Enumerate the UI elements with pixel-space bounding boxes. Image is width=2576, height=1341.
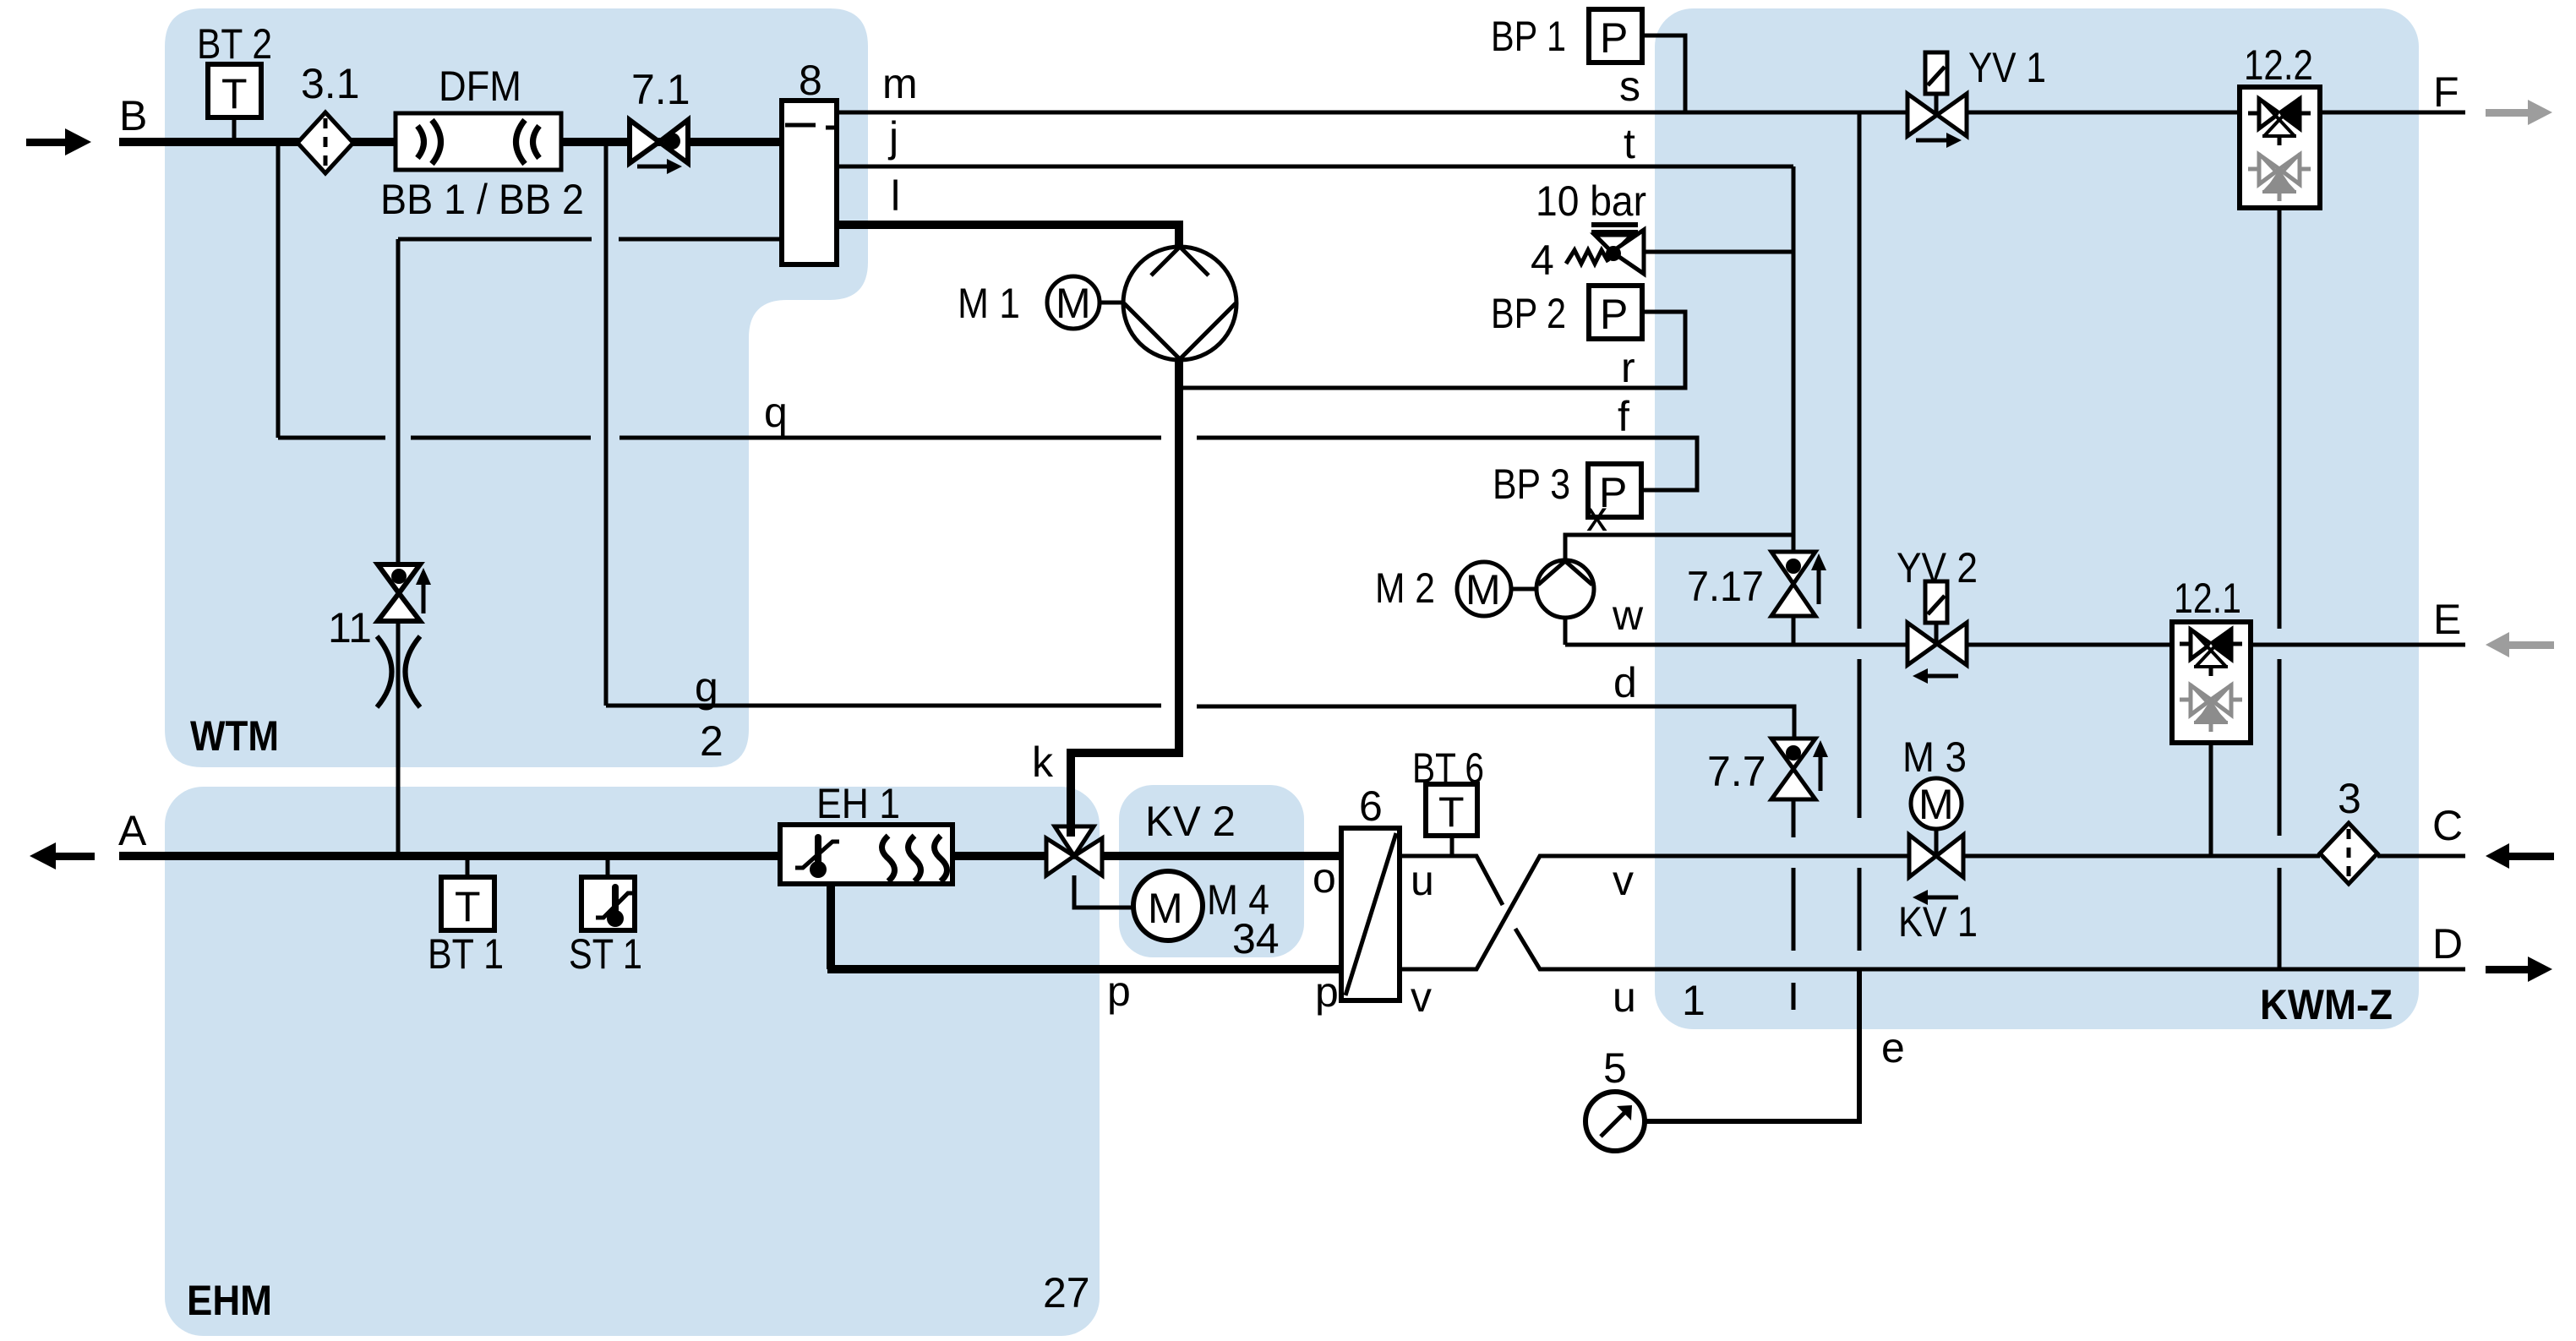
svg-text:M 3: M 3 <box>1902 733 1967 781</box>
svg-text:w: w <box>1612 591 1644 639</box>
svg-text:BT 2: BT 2 <box>197 20 272 68</box>
svg-text:v: v <box>1411 973 1432 1021</box>
svg-text:A: A <box>118 807 147 854</box>
wire 12.2 drain <box>2278 208 2282 969</box>
svg-text:10 bar: 10 bar <box>1536 177 1646 225</box>
svg-text:q: q <box>764 389 788 436</box>
filter 3 <box>2320 823 2377 884</box>
svg-text:3.1: 3.1 <box>301 60 360 107</box>
svg-text:3: 3 <box>2338 775 2361 822</box>
svg-text:YV 2: YV 2 <box>1897 544 1978 591</box>
wire e <box>1645 969 1859 1121</box>
wire 8 lower port <box>398 239 782 578</box>
svg-text:EH 1: EH 1 <box>816 780 900 827</box>
wire v crossing <box>1400 856 1909 969</box>
svg-text:KV 2: KV 2 <box>1145 798 1236 845</box>
gauge 5 <box>1585 1092 1645 1151</box>
svg-text:6: 6 <box>1359 782 1383 830</box>
svg-text:ST 1: ST 1 <box>569 930 642 978</box>
heater EH1 <box>780 825 952 884</box>
svg-text:l: l <box>891 172 900 220</box>
svg-text:P: P <box>1600 14 1628 62</box>
svg-text:5: 5 <box>1603 1044 1627 1092</box>
valve 7.1 <box>630 120 688 174</box>
pump M2 <box>1536 560 1594 618</box>
wire boundary dash x2200 <box>1858 868 1862 951</box>
wire r <box>1179 312 1685 388</box>
svg-text:12.2: 12.2 <box>2244 41 2313 89</box>
wire k thick <box>1071 360 1179 825</box>
svg-text:KV 1: KV 1 <box>1898 898 1978 946</box>
inlet arrow E gray <box>2486 632 2554 657</box>
wire 7.7 below <box>1792 799 1796 837</box>
wire x <box>1565 535 1793 560</box>
svg-text:EHM: EHM <box>187 1277 272 1324</box>
svg-text:2: 2 <box>700 717 723 765</box>
module background KV2 <box>1119 785 1304 957</box>
svg-text:11: 11 <box>328 604 372 651</box>
module background WTM <box>165 8 868 767</box>
svg-text:WTM: WTM <box>190 712 279 760</box>
wire manifold t-down <box>1792 166 1796 645</box>
valve YV2 <box>1907 581 1967 684</box>
svg-text:g: g <box>695 663 718 711</box>
svg-text:M 1: M 1 <box>958 280 1020 327</box>
svg-text:M: M <box>1056 280 1091 327</box>
wire q from B <box>278 145 1697 490</box>
svg-text:m: m <box>882 60 918 107</box>
wire E <box>1967 643 2172 647</box>
svg-text:p: p <box>1107 968 1131 1015</box>
svg-text:T: T <box>455 883 481 930</box>
svg-text:s: s <box>1619 63 1640 110</box>
svg-text:8: 8 <box>799 57 822 104</box>
svg-text:BP 3: BP 3 <box>1493 461 1570 508</box>
filter 3.1 <box>297 112 353 173</box>
flex connector <box>377 636 420 707</box>
svg-text:d: d <box>1613 659 1637 706</box>
svg-text:T: T <box>221 70 248 117</box>
sensor BT6 <box>1426 784 1477 856</box>
svg-text:27: 27 <box>1043 1269 1090 1316</box>
svg-text:7.17: 7.17 <box>1687 563 1764 610</box>
valve KV2 3way <box>1046 823 1102 875</box>
valve 7.7 <box>1771 739 1828 799</box>
svg-text:DFM: DFM <box>439 63 521 110</box>
wire 12.1 drain <box>2209 743 2213 856</box>
svg-text:f: f <box>1618 393 1629 440</box>
svg-text:7.1: 7.1 <box>631 66 690 113</box>
svg-text:p: p <box>1315 968 1339 1016</box>
svg-text:BP 2: BP 2 <box>1491 290 1566 337</box>
svg-text:1: 1 <box>1682 977 1706 1024</box>
wire p thick <box>827 884 1341 969</box>
motor M4 <box>1074 871 1203 940</box>
motor M1 <box>1047 276 1123 329</box>
svg-text:r: r <box>1621 344 1635 391</box>
inlet arrow B <box>26 128 91 155</box>
valve 7.17 <box>1771 552 1826 616</box>
svg-text:BP 1: BP 1 <box>1491 13 1566 60</box>
svg-text:34: 34 <box>1232 915 1280 962</box>
wire w <box>1565 618 1907 645</box>
heat exchanger 6 <box>1341 828 1400 1000</box>
flow meter DFM <box>396 113 561 170</box>
sensor BT1 <box>441 856 494 930</box>
valve KV1 M3 <box>1909 778 1963 905</box>
wire s-down x2200 <box>1858 112 1862 818</box>
svg-text:C: C <box>2432 802 2463 849</box>
sensor ST1 <box>581 856 635 930</box>
wire C from valve <box>1963 854 2320 859</box>
svg-text:j: j <box>887 113 898 161</box>
svg-text:BT 6: BT 6 <box>1412 744 1484 792</box>
svg-text:u: u <box>1411 857 1434 904</box>
separator 8 <box>782 101 837 264</box>
svg-text:E: E <box>2433 596 2461 643</box>
svg-text:k: k <box>1032 739 1054 786</box>
outlet arrow F gray <box>2486 100 2552 125</box>
wire boundary dashes x2122 <box>1792 868 1796 1010</box>
svg-text:12.1: 12.1 <box>2174 575 2241 622</box>
svg-text:M: M <box>1918 781 1954 828</box>
wire l thick <box>837 225 1179 247</box>
svg-text:D: D <box>2432 920 2463 968</box>
svg-text:u: u <box>1613 973 1636 1021</box>
pump M1 <box>1123 247 1236 360</box>
sensor BP2 <box>1589 286 1642 339</box>
svg-text:t: t <box>1624 120 1635 167</box>
sensor BT2 <box>208 64 261 142</box>
svg-text:YV 1: YV 1 <box>1968 44 2046 91</box>
svg-text:e: e <box>1881 1024 1905 1071</box>
svg-text:4: 4 <box>1531 237 1554 284</box>
sensor BP3 <box>1588 464 1641 517</box>
wire B main <box>119 138 784 146</box>
motor M2 <box>1457 562 1536 616</box>
svg-text:M: M <box>1465 566 1501 613</box>
svg-text:M 2: M 2 <box>1375 564 1435 612</box>
wire valve to exchanger <box>1102 852 1341 860</box>
wire A to valve <box>952 852 1048 860</box>
sensor BP1 <box>1589 9 1685 112</box>
wire A main <box>119 852 780 860</box>
svg-text:BB 1 / BB 2: BB 1 / BB 2 <box>380 176 584 223</box>
svg-text:KWM-Z: KWM-Z <box>2260 981 2393 1028</box>
wire g vertical from B <box>606 145 1794 739</box>
outlet arrow D <box>2486 957 2552 982</box>
svg-text:M: M <box>1148 885 1183 932</box>
valve YV1 <box>1907 52 1967 148</box>
svg-text:BT 1: BT 1 <box>428 930 504 978</box>
wire 11 down <box>396 621 401 856</box>
outlet arrow A <box>30 842 95 869</box>
svg-text:T: T <box>1438 788 1465 836</box>
relief valve 4 <box>1566 225 1793 274</box>
svg-text:P: P <box>1600 291 1628 338</box>
svg-text:o: o <box>1313 854 1336 902</box>
module background EHM <box>165 787 1100 1336</box>
module background KWM-Z <box>1655 8 2419 1029</box>
svg-text:B: B <box>119 92 147 139</box>
wire j <box>837 165 1793 169</box>
svg-text:v: v <box>1613 857 1634 904</box>
wire u crossing <box>1400 856 2465 969</box>
svg-text:7.7: 7.7 <box>1707 748 1766 795</box>
backflow preventer 12.1 <box>2172 622 2251 743</box>
valve 11 <box>378 564 431 621</box>
wire m <box>837 111 1907 115</box>
inlet arrow C <box>2486 843 2554 869</box>
backflow preventer 12.2 <box>2240 87 2320 208</box>
wire s to YV1 and F <box>1967 111 2240 115</box>
svg-text:F: F <box>2433 68 2459 116</box>
